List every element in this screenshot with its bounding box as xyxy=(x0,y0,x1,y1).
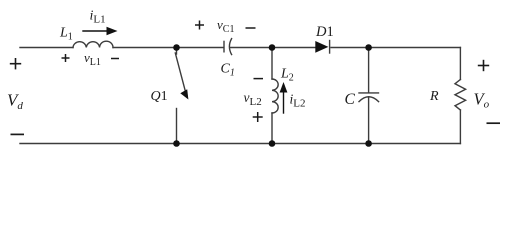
label plus Vd xyxy=(10,58,21,69)
label minus Vd xyxy=(11,133,25,135)
resistor R zigzag xyxy=(455,80,466,111)
svg-text:C: C xyxy=(345,91,356,108)
capacitor C1 left plate xyxy=(223,41,225,51)
wire C branch lower xyxy=(368,98,370,144)
arrowhead iL2 xyxy=(280,82,288,93)
label minus Vo xyxy=(487,122,501,124)
label plus vL1 xyxy=(62,54,70,62)
wire right branch lower xyxy=(459,110,461,144)
wire L2 lower segment xyxy=(271,113,273,144)
label plus Vo xyxy=(478,60,489,71)
wire right branch upper xyxy=(459,48,461,80)
wire C branch upper xyxy=(368,48,370,93)
label plus vL2 xyxy=(253,112,263,122)
arrowhead Q1 blade xyxy=(180,89,188,99)
node dot Q1 top xyxy=(173,44,180,51)
wire top rail left segment xyxy=(20,47,73,49)
label minus vL1 xyxy=(111,58,119,60)
inductor L2 coil xyxy=(272,79,278,113)
node dot Q1 bottom xyxy=(173,140,180,147)
wire Q1 lower segment xyxy=(176,109,178,144)
wire bottom rail xyxy=(20,143,460,145)
label plus vC1 xyxy=(195,21,204,30)
node dot L2 bottom xyxy=(269,140,276,147)
capacitor C top plate xyxy=(359,92,379,94)
wire top rail diode to right corner xyxy=(331,47,460,49)
inductor L1 coil xyxy=(73,41,113,47)
current arrow iL2 shaft xyxy=(283,88,285,114)
label minus vC1 xyxy=(246,27,256,29)
node dot C top xyxy=(365,44,372,51)
node dot C bottom xyxy=(365,140,372,147)
arrowhead iL1 xyxy=(107,27,118,35)
current arrow iL1 shaft xyxy=(83,30,110,32)
label minus vL2 xyxy=(254,78,264,80)
switch Q1 top stub xyxy=(176,48,178,55)
wire top rail C1 to diode xyxy=(230,47,315,49)
wire top rail L1 to C1 xyxy=(113,47,224,49)
diode D1 cathode bar xyxy=(329,41,331,54)
diode D1 triangle xyxy=(315,41,328,53)
svg-text:R: R xyxy=(429,89,439,104)
capacitor C1 right curved plate xyxy=(229,39,231,55)
node dot L2 top xyxy=(269,44,276,51)
svg-text:D1: D1 xyxy=(315,24,334,40)
switch Q1 blade xyxy=(175,53,185,91)
svg-text:Q1: Q1 xyxy=(151,89,168,104)
capacitor C curved plate xyxy=(359,97,379,102)
wire L2 upper segment xyxy=(271,48,273,80)
